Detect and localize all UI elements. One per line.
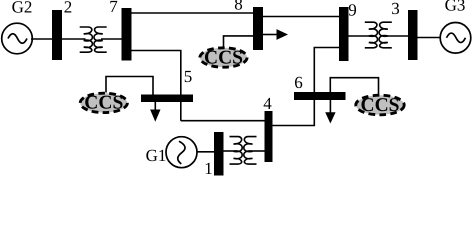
svg-text:CCS: CCS bbox=[360, 95, 399, 116]
svg-text:1: 1 bbox=[204, 159, 213, 176]
CCS unit at bus 5 bbox=[80, 93, 127, 114]
svg-text:9: 9 bbox=[348, 1, 357, 20]
CCS unit at bus 6 bbox=[356, 95, 404, 116]
svg-text:5: 5 bbox=[184, 67, 193, 86]
generator G1 bbox=[166, 137, 197, 168]
generator G2 bbox=[2, 23, 33, 54]
bus 5 bbox=[141, 95, 193, 103]
wire bus 9 to transformer T3 bbox=[349, 35, 371, 37]
line 7-8 bbox=[132, 12, 254, 14]
transformer T3 (bus9-bus3) bbox=[365, 22, 392, 48]
wire T2 to bus 7 bbox=[101, 38, 122, 40]
svg-text:3: 3 bbox=[391, 0, 400, 18]
line 4-6 bbox=[273, 100, 315, 126]
svg-text:G1: G1 bbox=[146, 146, 167, 165]
bus 8 bbox=[253, 7, 263, 50]
wire bus 8 to CCS (mid) bbox=[224, 36, 254, 47]
wire bus 3 to G3 bbox=[418, 37, 442, 39]
svg-text:6: 6 bbox=[294, 73, 303, 92]
wire bus 1 to transformer T1 bbox=[224, 150, 236, 152]
wire T3 to bus 3 bbox=[386, 35, 408, 37]
line 5-4 bbox=[181, 120, 265, 122]
bus 4 bbox=[265, 111, 273, 162]
bus 9 bbox=[339, 7, 349, 61]
svg-text:CCS: CCS bbox=[204, 47, 243, 68]
line 7-5 bbox=[132, 51, 181, 121]
bus 6 bbox=[294, 92, 346, 100]
bus 3 bbox=[408, 10, 418, 60]
wire T1 to bus 4 bbox=[251, 150, 266, 152]
load arrow at bus 8 bbox=[263, 29, 288, 40]
wire bus 5 to CCS (left) bbox=[106, 77, 153, 95]
transformer T2 (bus2-bus7) bbox=[80, 27, 107, 52]
bus 7 bbox=[122, 8, 132, 61]
CCS unit at bus 8 bbox=[200, 47, 247, 68]
wire G1 to bus 1 bbox=[197, 151, 214, 153]
bus 1 bbox=[214, 132, 224, 176]
svg-text:8: 8 bbox=[234, 0, 243, 14]
svg-text:G3: G3 bbox=[445, 0, 466, 15]
load arrow at bus 5 bbox=[150, 102, 160, 122]
svg-text:7: 7 bbox=[109, 0, 118, 16]
svg-text:2: 2 bbox=[64, 0, 73, 17]
line 8-9 bbox=[263, 16, 339, 18]
wire bus 6 to CCS (right) bbox=[330, 78, 378, 95]
svg-text:CCS: CCS bbox=[84, 93, 123, 114]
svg-text:G2: G2 bbox=[12, 0, 33, 17]
transformer T1 (bus1-bus4) bbox=[230, 137, 257, 165]
load arrow at bus 6 bbox=[325, 100, 335, 124]
bus 2 bbox=[52, 10, 62, 60]
svg-text:4: 4 bbox=[263, 94, 272, 113]
wire G2 to bus 2 to transformer T2 to bus 7 bbox=[31, 38, 86, 40]
line 9-6 bbox=[314, 48, 339, 93]
generator G3 bbox=[440, 23, 471, 54]
